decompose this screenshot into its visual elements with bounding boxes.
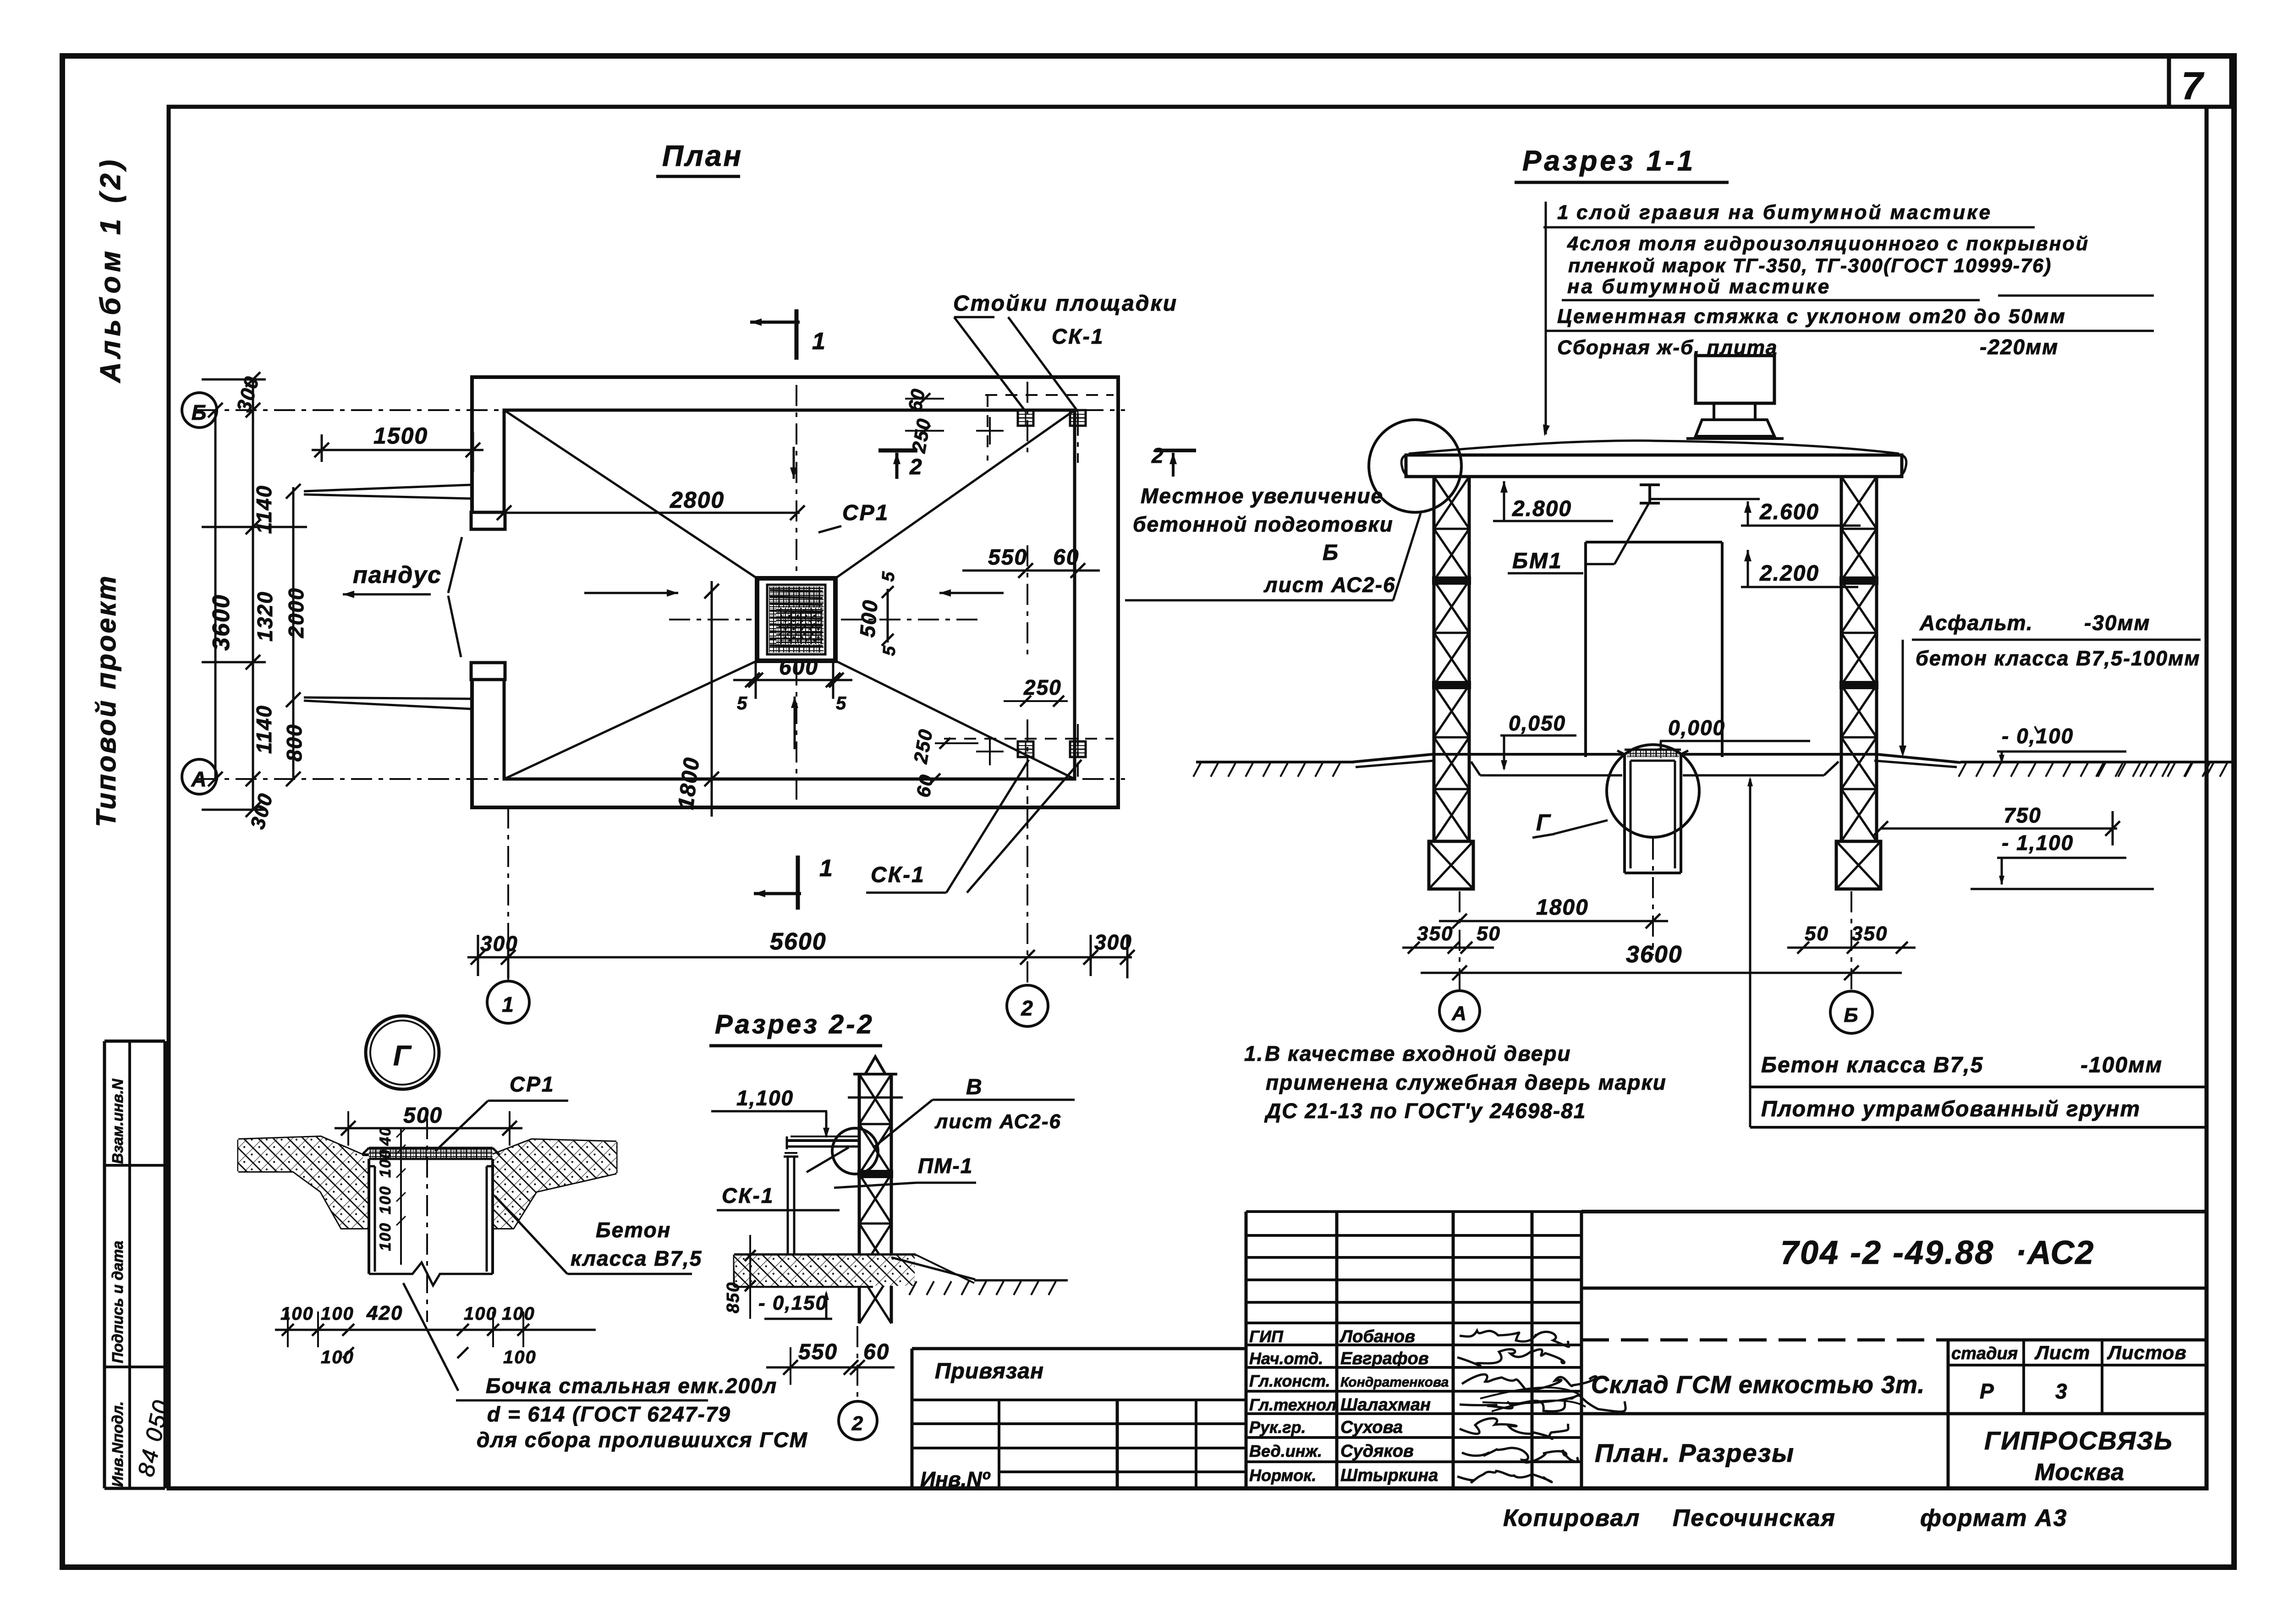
svg-text:7: 7 <box>2181 64 2204 107</box>
svg-text:750: 750 <box>2004 803 2042 827</box>
svg-text:пленкой марок ТГ-350, ТГ-300(Г: пленкой марок ТГ-350, ТГ-300(ГОСТ 10999-… <box>1568 255 2052 277</box>
svg-text:550: 550 <box>988 545 1027 570</box>
svg-text:Асфальт.: Асфальт. <box>1919 611 2033 635</box>
svg-text:Москва: Москва <box>2035 1459 2125 1486</box>
svg-text:Г: Г <box>393 1040 412 1072</box>
svg-text:Стойки площадки: Стойки площадки <box>953 291 1178 316</box>
svg-text:60: 60 <box>904 386 929 413</box>
svg-text:Листов: Листов <box>2107 1342 2187 1363</box>
svg-text:-30мм: -30мм <box>2084 611 2151 635</box>
svg-text:Судяков: Судяков <box>1340 1442 1414 1461</box>
svg-text:Бочка стальная емк.200л: Бочка стальная емк.200л <box>486 1374 777 1398</box>
svg-text:50: 50 <box>1477 922 1501 945</box>
svg-text:Лист: Лист <box>2034 1342 2090 1363</box>
svg-text:500: 500 <box>855 598 882 638</box>
svg-text:бетон класса В7,5-100мм: бетон класса В7,5-100мм <box>1916 647 2201 670</box>
svg-text:2.800: 2.800 <box>1512 497 1572 521</box>
svg-text:Б: Б <box>1323 541 1339 565</box>
svg-text:стадия: стадия <box>1951 1344 2018 1363</box>
svg-text:Копировал: Копировал <box>1503 1505 1640 1531</box>
svg-text:Шалахман: Шалахман <box>1340 1395 1431 1415</box>
svg-text:СР1: СР1 <box>510 1072 555 1096</box>
svg-text:СР1: СР1 <box>842 501 889 525</box>
svg-text:100: 100 <box>464 1304 497 1324</box>
svg-text:А: А <box>191 767 207 791</box>
svg-text:пандус: пандус <box>353 562 442 588</box>
svg-text:500: 500 <box>403 1103 443 1128</box>
svg-text:В: В <box>966 1075 983 1099</box>
svg-text:А: А <box>1451 1002 1467 1025</box>
svg-text:Инв.Nº: Инв.Nº <box>920 1467 991 1491</box>
svg-text:60: 60 <box>912 772 938 799</box>
svg-text:Песочинская: Песочинская <box>1673 1505 1836 1531</box>
svg-text:5: 5 <box>836 693 847 713</box>
svg-text:2.600: 2.600 <box>1759 500 1819 524</box>
svg-text:2: 2 <box>851 1412 864 1435</box>
svg-text:- 0,150: - 0,150 <box>758 1292 828 1314</box>
svg-text:Гл.конст.: Гл.конст. <box>1249 1372 1330 1390</box>
svg-text:1140: 1140 <box>252 705 276 754</box>
svg-text:Г: Г <box>1536 810 1551 835</box>
svg-text:1: 1 <box>502 993 515 1016</box>
svg-text:2.200: 2.200 <box>1759 561 1819 586</box>
svg-text:1800: 1800 <box>1536 895 1589 920</box>
svg-text:5600: 5600 <box>770 928 827 955</box>
svg-text:0,050: 0,050 <box>1509 711 1566 735</box>
svg-text:1: 1 <box>812 328 826 355</box>
svg-text:Р: Р <box>1980 1379 1995 1403</box>
svg-text:Евграфов: Евграфов <box>1340 1349 1429 1368</box>
svg-text:Гл.технол: Гл.технол <box>1249 1395 1336 1414</box>
svg-text:Кондратенкова: Кондратенкова <box>1340 1375 1449 1390</box>
svg-text:3600: 3600 <box>208 594 235 651</box>
svg-text:300: 300 <box>480 932 518 955</box>
svg-text:лист АС2-6: лист АС2-6 <box>934 1110 1061 1133</box>
svg-text:В качестве входной двери: В качестве входной двери <box>1265 1042 1571 1065</box>
svg-text:1320: 1320 <box>253 591 277 642</box>
svg-text:Б: Б <box>192 401 208 424</box>
svg-text:100: 100 <box>377 1222 394 1251</box>
svg-text:4слоя толя гидроизоляционного: 4слоя толя гидроизоляционного с покрывно… <box>1567 233 2089 255</box>
svg-text:704 -2 -49.88: 704 -2 -49.88 <box>1780 1234 1994 1271</box>
svg-text:Нач.отд.: Нач.отд. <box>1249 1349 1323 1368</box>
svg-text:60: 60 <box>863 1340 889 1364</box>
svg-text:применена служебная дверь марк: применена служебная дверь марки <box>1266 1070 1667 1094</box>
svg-text:40: 40 <box>377 1126 394 1146</box>
svg-text:600: 600 <box>779 655 818 680</box>
svg-text:ГИПРОСВЯЗЬ: ГИПРОСВЯЗЬ <box>1984 1426 2173 1455</box>
svg-text:100: 100 <box>377 1185 394 1214</box>
svg-text:- 0,100: - 0,100 <box>2002 724 2074 748</box>
svg-text:Плотно утрамбованный грунт: Плотно утрамбованный грунт <box>1761 1097 2141 1121</box>
svg-text:1,100: 1,100 <box>736 1086 794 1110</box>
svg-text:1: 1 <box>819 855 834 882</box>
svg-text:Склад ГСМ емкостью 3т.: Склад ГСМ емкостью 3т. <box>1591 1371 1925 1399</box>
svg-text:-100мм: -100мм <box>2081 1053 2163 1077</box>
svg-text:Взам.инв.N: Взам.инв.N <box>109 1078 126 1164</box>
svg-text:формат А3: формат А3 <box>1920 1505 2067 1531</box>
svg-text:2: 2 <box>1021 996 1034 1020</box>
svg-text:5: 5 <box>878 570 899 582</box>
svg-text:Привязан: Привязан <box>935 1359 1044 1383</box>
svg-text:5: 5 <box>737 693 748 713</box>
svg-text:1: 1 <box>1557 201 1569 224</box>
svg-text:Рук.гр.: Рук.гр. <box>1249 1418 1306 1437</box>
svg-text:250: 250 <box>909 727 937 765</box>
svg-text:бетонной подготовки: бетонной подготовки <box>1133 512 1394 536</box>
svg-text:Бетон класса В7,5: Бетон класса В7,5 <box>1761 1053 1983 1077</box>
svg-text:2000: 2000 <box>284 587 308 638</box>
svg-text:ПМ-1: ПМ-1 <box>918 1154 973 1178</box>
svg-text:5: 5 <box>879 644 900 657</box>
svg-text:ДС 21-13 по ГОСТ'у 24698-81: ДС 21-13 по ГОСТ'у 24698-81 <box>1264 1099 1586 1123</box>
svg-text:Штыркина: Штыркина <box>1340 1466 1438 1485</box>
svg-text:100: 100 <box>502 1304 535 1324</box>
svg-text:1140: 1140 <box>252 485 276 534</box>
svg-text:БМ1: БМ1 <box>1512 549 1563 573</box>
svg-text:100: 100 <box>321 1347 354 1367</box>
svg-text:300: 300 <box>1094 930 1132 954</box>
svg-text:d = 614 (ГОСТ 6247-79: d = 614 (ГОСТ 6247-79 <box>487 1402 731 1426</box>
svg-text:Нормок.: Нормок. <box>1249 1466 1316 1485</box>
svg-text:СК-1: СК-1 <box>871 863 925 887</box>
svg-text:0,000: 0,000 <box>1668 716 1725 740</box>
svg-text:Разрез 1-1: Разрез 1-1 <box>1522 145 1696 177</box>
svg-text:Местное увеличение: Местное увеличение <box>1141 484 1384 508</box>
svg-text:800: 800 <box>282 724 306 762</box>
svg-text:ГИП: ГИП <box>1249 1327 1284 1346</box>
svg-text:Разрез 2-2: Разрез 2-2 <box>715 1010 874 1039</box>
svg-text:СК-1: СК-1 <box>1052 324 1104 348</box>
svg-text:на битумной мастике: на битумной мастике <box>1567 275 1831 298</box>
svg-text:Подпись и дата: Подпись и дата <box>109 1241 126 1364</box>
svg-text:Инв.Nподл.: Инв.Nподл. <box>109 1401 126 1487</box>
svg-text:Вед.инж.: Вед.инж. <box>1249 1442 1322 1460</box>
svg-text:3600: 3600 <box>1626 941 1683 968</box>
svg-text:420: 420 <box>366 1302 403 1324</box>
svg-text:Типовой проект: Типовой проект <box>91 574 121 827</box>
svg-text:лист АС2-6: лист АС2-6 <box>1263 573 1396 597</box>
svg-text:2: 2 <box>909 455 923 479</box>
svg-text:300: 300 <box>246 790 277 831</box>
svg-text:850: 850 <box>724 1282 743 1313</box>
svg-text:Сухова: Сухова <box>1340 1418 1403 1437</box>
svg-text:Б: Б <box>1844 1004 1859 1026</box>
svg-text:250: 250 <box>1023 675 1062 699</box>
svg-text:2800: 2800 <box>670 487 725 513</box>
svg-text:для сбора пролившихся ГСМ: для сбора пролившихся ГСМ <box>477 1428 808 1452</box>
svg-text:3: 3 <box>2055 1379 2068 1403</box>
svg-text:План. Разрезы: План. Разрезы <box>1595 1438 1795 1467</box>
svg-text:·АС2: ·АС2 <box>2015 1234 2094 1271</box>
svg-text:60: 60 <box>1053 545 1079 570</box>
svg-text:350: 350 <box>1417 922 1453 945</box>
svg-text:слой гравия на битумной мастик: слой гравия на битумной мастике <box>1576 201 1992 224</box>
svg-text:1800: 1800 <box>674 756 704 811</box>
svg-text:Бетон: Бетон <box>596 1218 671 1242</box>
svg-text:2: 2 <box>1151 444 1164 467</box>
svg-text:100: 100 <box>280 1304 314 1324</box>
svg-text:План: План <box>662 139 743 172</box>
svg-text:1500: 1500 <box>373 423 428 449</box>
svg-text:СК-1: СК-1 <box>722 1184 774 1207</box>
svg-text:100: 100 <box>503 1347 537 1367</box>
svg-text:-220мм: -220мм <box>1980 335 2059 359</box>
svg-text:100: 100 <box>377 1149 394 1178</box>
svg-text:Цементная стяжка с уклоном от2: Цементная стяжка с уклоном от20 до 50мм <box>1557 305 2066 328</box>
svg-text:550: 550 <box>798 1340 838 1364</box>
svg-text:350: 350 <box>1851 922 1888 945</box>
svg-text:класса В7,5: класса В7,5 <box>571 1246 702 1270</box>
svg-text:50: 50 <box>1805 922 1829 945</box>
svg-text:100: 100 <box>321 1304 354 1324</box>
svg-text:Лобанов: Лобанов <box>1339 1327 1415 1346</box>
svg-text:Альбом 1 (2): Альбом 1 (2) <box>95 156 126 384</box>
svg-text:- 1,100: - 1,100 <box>2002 831 2074 855</box>
svg-text:1.: 1. <box>1244 1042 1263 1065</box>
